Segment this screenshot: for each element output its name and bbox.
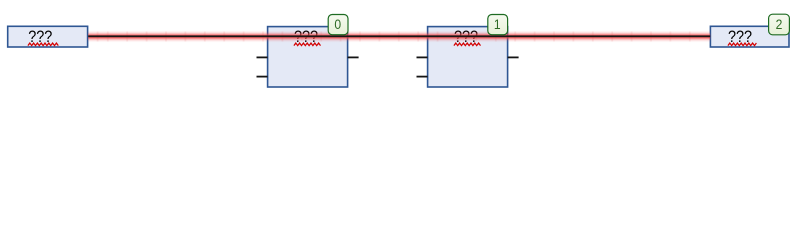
output operand box OUT1 bbox=[710, 26, 789, 47]
function block U0 bbox=[268, 27, 348, 87]
wire segment joint ticks bbox=[97, 32, 691, 42]
U0 input pin 3 stub bbox=[257, 76, 268, 78]
U1 input pin 3 stub bbox=[417, 76, 428, 78]
svg-text:2: 2 bbox=[776, 17, 783, 33]
execution order badge 0 (on U0) bbox=[328, 15, 348, 35]
error squiggle under OUT1 label bbox=[728, 43, 757, 46]
function block U1 bbox=[428, 27, 508, 87]
U1 output pin stub bbox=[508, 56, 519, 58]
error squiggle under U0 label bbox=[294, 43, 321, 46]
execution order badge 2 (on OUT1) bbox=[769, 14, 790, 35]
error squiggle under U1 label bbox=[454, 43, 481, 46]
U0 output pin stub bbox=[348, 56, 359, 58]
svg-text:0: 0 bbox=[334, 17, 341, 33]
svg-text:1: 1 bbox=[494, 17, 501, 33]
input operand box IN1 bbox=[8, 26, 88, 47]
U0 input pin 2 stub bbox=[257, 56, 268, 58]
wire IN1 to OUT1 (selected, red highlight glow) bbox=[88, 30, 710, 42]
execution order badge 1 (on U1) bbox=[488, 15, 508, 35]
U1 input pin 2 stub bbox=[417, 56, 428, 58]
error squiggle under IN1 label bbox=[28, 43, 58, 46]
wire core line bbox=[88, 35, 710, 37]
